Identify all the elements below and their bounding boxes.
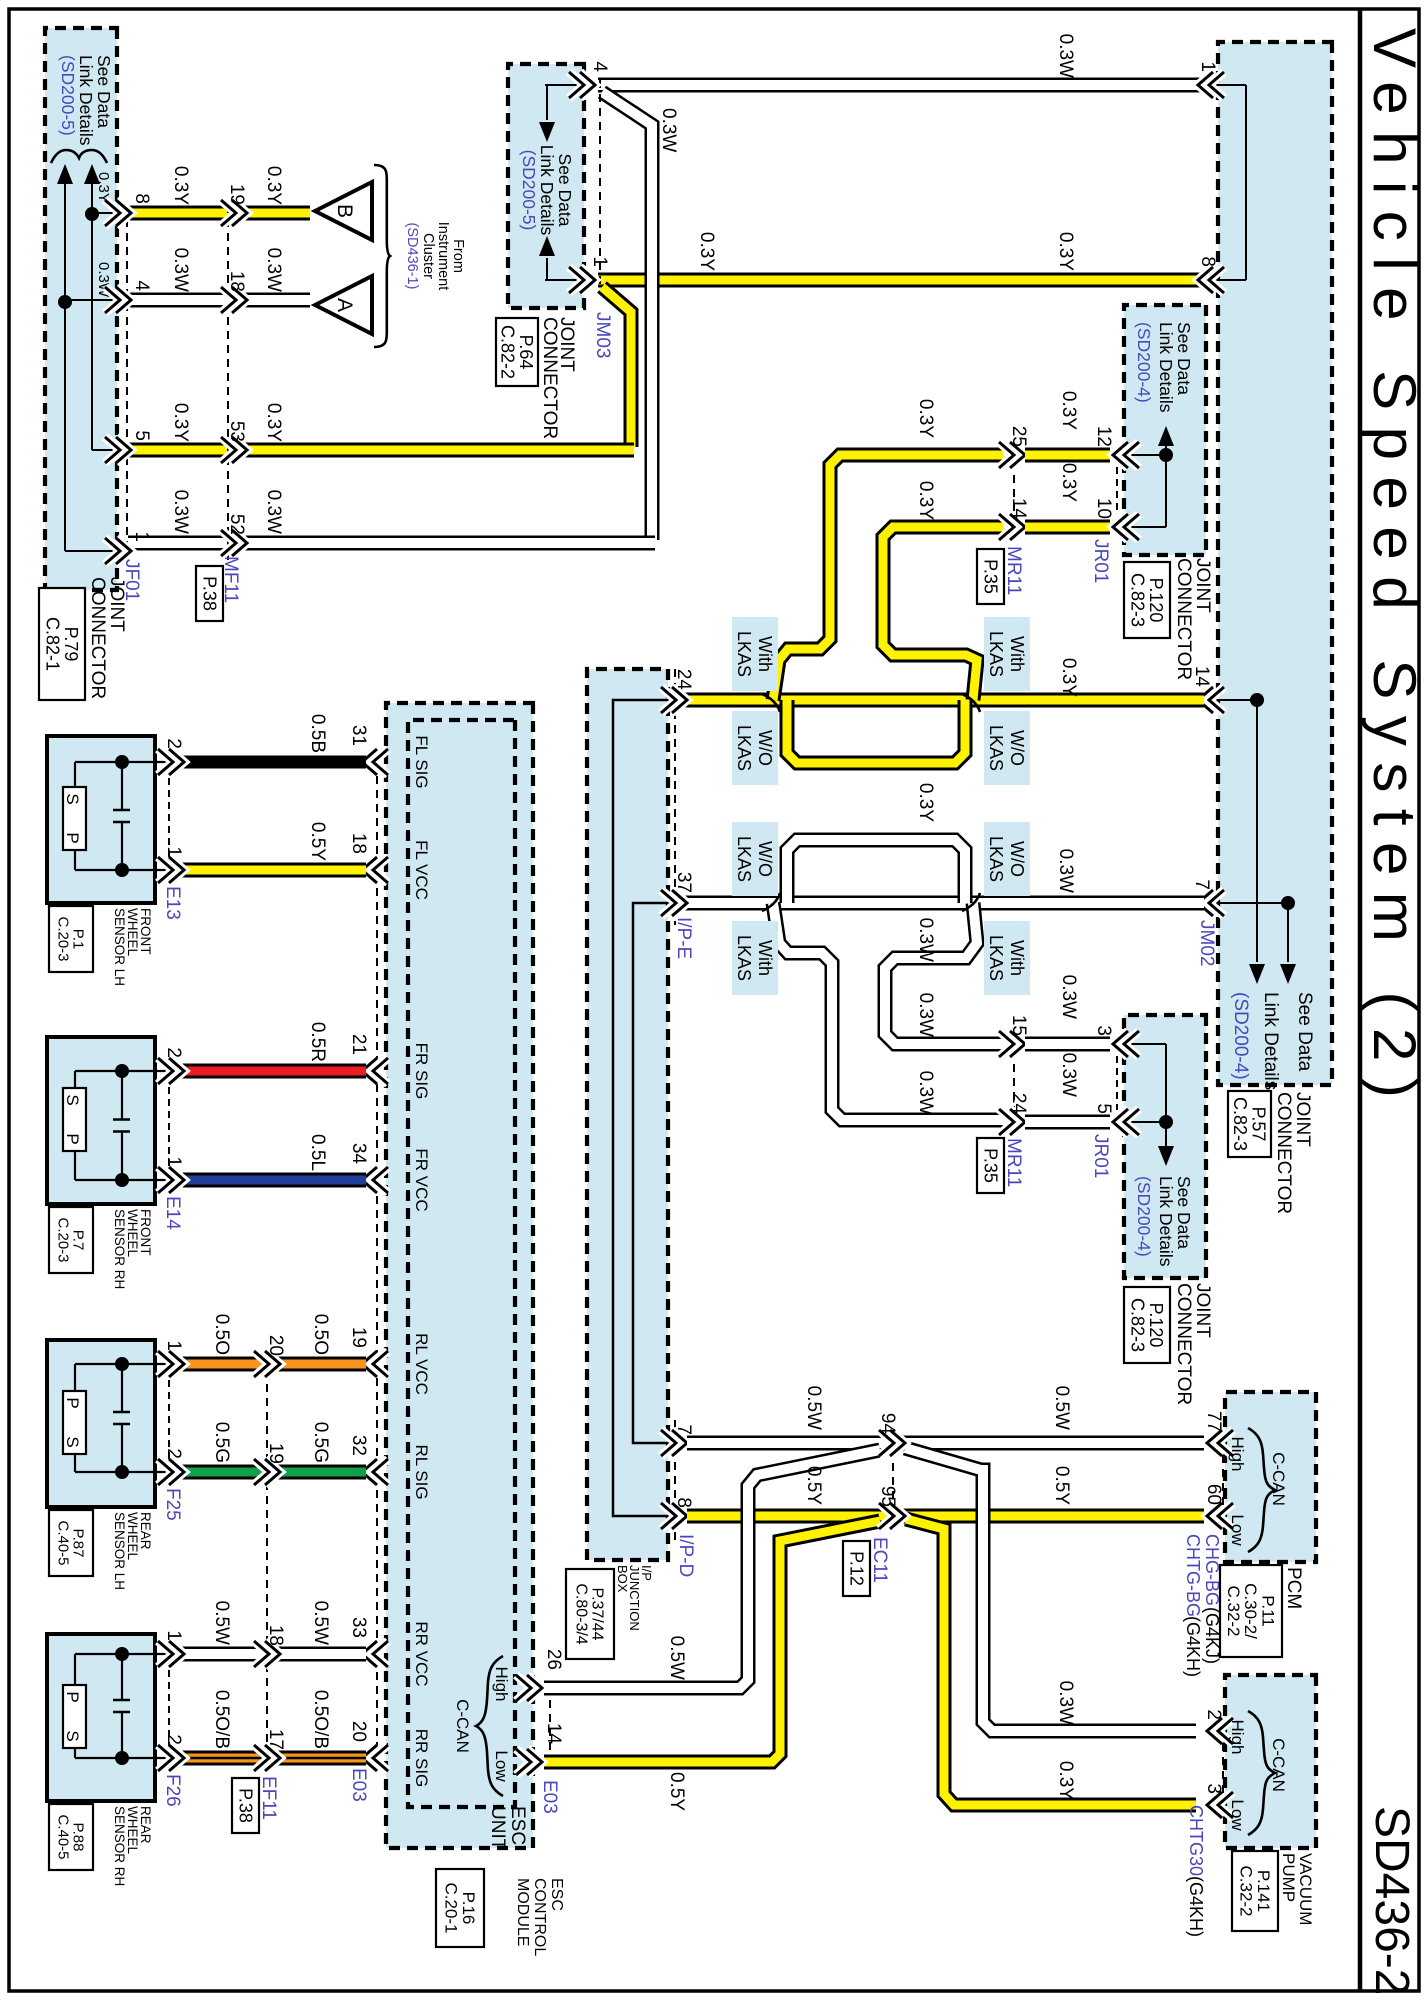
svg-text:RR SIG: RR SIG	[412, 1729, 431, 1788]
svg-text:CONNECTOR: CONNECTOR	[539, 317, 560, 439]
svg-text:(SD200-4): (SD200-4)	[1134, 1176, 1154, 1257]
svg-text:PCM: PCM	[1283, 1567, 1304, 1609]
svg-text:C.82-1: C.82-1	[43, 617, 63, 671]
svg-text:C.82-3: C.82-3	[1128, 1298, 1148, 1352]
svg-text:SENSOR RH: SENSOR RH	[112, 1806, 127, 1886]
svg-text:94: 94	[877, 1413, 898, 1435]
svg-text:0.3Y: 0.3Y	[696, 232, 717, 271]
svg-text:19: 19	[226, 184, 247, 205]
svg-text:FR VCC: FR VCC	[412, 1148, 431, 1211]
svg-text:ESC: ESC	[548, 1878, 565, 1911]
svg-text:C-CAN: C-CAN	[453, 1699, 472, 1753]
svg-text:P.16: P.16	[459, 1892, 478, 1925]
svg-text:24: 24	[673, 669, 694, 691]
svg-text:0.5Y: 0.5Y	[803, 1466, 824, 1505]
svg-text:24: 24	[1008, 1093, 1029, 1115]
svg-text:Low: Low	[1228, 1514, 1247, 1546]
svg-text:Vehicle Speed System (2): Vehicle Speed System (2)	[1361, 28, 1428, 1114]
svg-text:3: 3	[1093, 1025, 1114, 1036]
svg-text:18: 18	[226, 271, 247, 292]
svg-text:I/P-E: I/P-E	[673, 917, 694, 959]
svg-text:0.3W: 0.3W	[915, 993, 936, 1037]
svg-text:C.40-5: C.40-5	[54, 1520, 71, 1565]
svg-text:4: 4	[589, 61, 610, 72]
svg-text:PUMP: PUMP	[1279, 1853, 1298, 1902]
svg-text:12: 12	[1093, 426, 1114, 447]
svg-text:C.32-2: C.32-2	[1237, 1865, 1256, 1916]
svg-text:CONNECTOR: CONNECTOR	[1173, 558, 1194, 680]
svg-text:20: 20	[348, 1721, 369, 1742]
svg-text:FL VCC: FL VCC	[412, 840, 431, 900]
svg-text:0.3W: 0.3W	[1058, 975, 1079, 1019]
svg-text:0.3Y: 0.3Y	[915, 783, 936, 822]
svg-text:E13: E13	[162, 886, 183, 920]
svg-text:FL SIG: FL SIG	[412, 735, 431, 788]
svg-text:C.20-1: C.20-1	[442, 1882, 461, 1933]
svg-text:JOINT: JOINT	[1192, 558, 1213, 613]
svg-text:0.5O/B: 0.5O/B	[211, 1690, 232, 1749]
svg-text:P.120: P.120	[1146, 1303, 1166, 1348]
svg-text:26: 26	[543, 1649, 564, 1670]
svg-text:0.3Y: 0.3Y	[1058, 463, 1079, 502]
svg-text:2: 2	[163, 1734, 184, 1745]
svg-text:C-CAN: C-CAN	[1269, 1738, 1288, 1792]
svg-text:JM03: JM03	[592, 312, 613, 358]
svg-text:Link Details: Link Details	[537, 145, 557, 236]
svg-text:C.20-3: C.20-3	[54, 916, 71, 961]
svg-text:With: With	[1007, 636, 1027, 672]
svg-text:5: 5	[1093, 1103, 1114, 1114]
svg-text:0.5W: 0.5W	[211, 1601, 232, 1645]
svg-text:0.5W: 0.5W	[666, 1636, 687, 1680]
svg-text:LKAS: LKAS	[986, 836, 1006, 882]
svg-text:P.38: P.38	[199, 576, 219, 611]
svg-text:E03: E03	[348, 1768, 369, 1802]
svg-text:(G4KH): (G4KH)	[1186, 1876, 1206, 1937]
svg-text:1: 1	[163, 1630, 184, 1641]
svg-text:1: 1	[589, 256, 610, 267]
svg-text:0.5G: 0.5G	[310, 1422, 331, 1463]
svg-text:EF11: EF11	[258, 1776, 279, 1820]
svg-text:0.3Y: 0.3Y	[1058, 658, 1079, 697]
svg-text:JM02: JM02	[1196, 920, 1217, 966]
svg-text:P: P	[63, 1691, 82, 1702]
svg-text:C.30-2/: C.30-2/	[1241, 1583, 1260, 1639]
svg-text:S: S	[63, 1094, 82, 1105]
svg-text:1: 1	[131, 531, 152, 542]
svg-text:Link Details: Link Details	[1260, 992, 1281, 1090]
svg-text:High: High	[1228, 1720, 1247, 1755]
svg-text:S: S	[63, 1730, 82, 1741]
svg-text:MODULE: MODULE	[514, 1878, 531, 1946]
svg-text:1: 1	[163, 1156, 184, 1167]
svg-text:UNIT: UNIT	[487, 1806, 508, 1851]
svg-text:0.3Y: 0.3Y	[263, 166, 284, 205]
svg-text:(SD200-5): (SD200-5)	[58, 55, 78, 136]
svg-text:S: S	[63, 793, 82, 804]
svg-text:2: 2	[1203, 1709, 1224, 1720]
svg-text:0.3W: 0.3W	[263, 248, 284, 292]
svg-text:19: 19	[348, 1327, 369, 1348]
svg-text:LKAS: LKAS	[734, 725, 754, 771]
svg-text:C.82-2: C.82-2	[498, 325, 518, 379]
svg-text:LKAS: LKAS	[734, 836, 754, 882]
svg-text:RL SIG: RL SIG	[412, 1444, 431, 1499]
svg-text:7: 7	[1191, 879, 1212, 890]
svg-text:7: 7	[673, 1424, 694, 1435]
svg-text:(G4KH): (G4KH)	[1183, 1616, 1203, 1677]
svg-text:0.5W: 0.5W	[803, 1386, 824, 1430]
svg-text:BOX: BOX	[615, 1565, 630, 1593]
svg-text:W/O: W/O	[755, 730, 775, 766]
svg-text:60: 60	[1203, 1484, 1224, 1505]
svg-text:0.3W: 0.3W	[915, 1071, 936, 1115]
svg-text:1: 1	[163, 1340, 184, 1351]
svg-text:With: With	[755, 636, 775, 672]
svg-text:53: 53	[226, 421, 247, 442]
svg-text:P.11: P.11	[1259, 1595, 1278, 1627]
svg-text:LKAS: LKAS	[986, 935, 1006, 981]
svg-text:Link Details: Link Details	[76, 55, 96, 146]
svg-text:LKAS: LKAS	[734, 631, 754, 677]
svg-text:0.3W: 0.3W	[1055, 34, 1076, 78]
svg-text:0.3W: 0.3W	[915, 918, 936, 962]
svg-text:0.3W: 0.3W	[658, 108, 679, 152]
svg-text:0.3W: 0.3W	[263, 490, 284, 534]
svg-text:0.3W: 0.3W	[1055, 1681, 1076, 1725]
svg-text:32: 32	[348, 1435, 369, 1456]
svg-text:C.82-3: C.82-3	[1128, 573, 1148, 627]
svg-text:SENSOR LH: SENSOR LH	[112, 1512, 127, 1590]
svg-text:EC11: EC11	[869, 1537, 890, 1583]
svg-text:E03: E03	[539, 1780, 560, 1814]
svg-text:C.32-2: C.32-2	[1224, 1585, 1243, 1636]
svg-text:Cluster: Cluster	[420, 233, 436, 279]
svg-text:P.141: P.141	[1254, 1870, 1273, 1912]
svg-text:E14: E14	[162, 1196, 183, 1230]
svg-text:0.3Y: 0.3Y	[1058, 391, 1079, 430]
svg-text:(SD436-1): (SD436-1)	[404, 223, 420, 290]
svg-text:4: 4	[131, 280, 152, 291]
svg-text:0.5O: 0.5O	[211, 1314, 232, 1355]
svg-text:See Data: See Data	[1174, 1176, 1194, 1249]
svg-text:Link Details: Link Details	[1156, 322, 1176, 413]
svg-text:8: 8	[1197, 256, 1218, 267]
svg-text:See Data: See Data	[1174, 322, 1194, 395]
svg-text:0.3W: 0.3W	[170, 248, 191, 292]
svg-text:8: 8	[673, 1497, 694, 1508]
svg-text:W/O: W/O	[1007, 730, 1027, 766]
svg-text:W/O: W/O	[1007, 841, 1027, 877]
svg-text:C.20-3: C.20-3	[54, 1217, 71, 1262]
svg-text:0.5Y: 0.5Y	[1051, 1466, 1072, 1505]
svg-text:0.3W: 0.3W	[170, 490, 191, 534]
svg-text:0.5W: 0.5W	[1051, 1386, 1072, 1430]
svg-text:SD436-2: SD436-2	[1365, 1806, 1418, 1995]
svg-text:C-CAN: C-CAN	[1269, 1452, 1288, 1506]
svg-text:See Data: See Data	[1294, 992, 1315, 1072]
svg-text:33: 33	[348, 1617, 369, 1638]
svg-text:0.5Y: 0.5Y	[307, 822, 328, 861]
svg-text:0.5W: 0.5W	[310, 1601, 331, 1645]
svg-text:JOINT: JOINT	[106, 577, 127, 632]
svg-text:0.5Y: 0.5Y	[666, 1772, 687, 1811]
svg-text:CHTG30: CHTG30	[1186, 1805, 1206, 1876]
svg-text:MR11: MR11	[1003, 546, 1024, 595]
svg-text:CONNECTOR: CONNECTOR	[1273, 1092, 1294, 1214]
svg-text:0.5O/B: 0.5O/B	[310, 1690, 331, 1749]
svg-text:3: 3	[1203, 1783, 1224, 1794]
svg-text:RR VCC: RR VCC	[412, 1621, 431, 1686]
svg-text:F26: F26	[162, 1774, 183, 1807]
svg-text:2: 2	[163, 738, 184, 749]
svg-text:See Data: See Data	[555, 154, 575, 227]
svg-text:LKAS: LKAS	[986, 725, 1006, 771]
svg-text:15: 15	[1008, 1015, 1029, 1036]
svg-text:21: 21	[348, 1034, 369, 1055]
svg-text:C.82-3: C.82-3	[1230, 1097, 1250, 1151]
svg-text:CONNECTOR: CONNECTOR	[87, 577, 108, 699]
svg-text:0.5B: 0.5B	[307, 714, 328, 753]
svg-text:0.3W: 0.3W	[1058, 1053, 1079, 1097]
svg-text:20: 20	[265, 1335, 286, 1356]
svg-text:0.5G: 0.5G	[211, 1422, 232, 1463]
svg-text:5: 5	[131, 430, 152, 441]
svg-text:14: 14	[1008, 498, 1029, 520]
svg-text:MR11: MR11	[1003, 1138, 1024, 1187]
svg-text:B: B	[333, 204, 356, 218]
svg-text:0.5O: 0.5O	[310, 1314, 331, 1355]
svg-text:P.57: P.57	[1249, 1107, 1269, 1142]
svg-text:P: P	[63, 1397, 82, 1408]
svg-text:S: S	[63, 1436, 82, 1447]
svg-text:High: High	[492, 1667, 511, 1702]
svg-text:RL VCC: RL VCC	[412, 1333, 431, 1395]
svg-text:F25: F25	[162, 1488, 183, 1521]
svg-text:(G4KJ): (G4KJ)	[1202, 1607, 1222, 1664]
svg-text:JR01: JR01	[1090, 1134, 1111, 1178]
svg-text:(SD200-4): (SD200-4)	[1230, 992, 1251, 1080]
svg-text:0.3Y: 0.3Y	[1055, 1761, 1076, 1800]
svg-text:P.12: P.12	[846, 1551, 866, 1586]
svg-text:LKAS: LKAS	[986, 631, 1006, 677]
svg-text:A: A	[333, 298, 356, 312]
svg-text:SENSOR LH: SENSOR LH	[112, 908, 127, 986]
svg-text:P.35: P.35	[980, 559, 1000, 594]
svg-text:0.3Y: 0.3Y	[170, 403, 191, 442]
svg-text:77: 77	[1203, 1411, 1224, 1432]
svg-text:8: 8	[131, 193, 152, 204]
svg-text:P: P	[63, 1133, 82, 1144]
svg-text:2: 2	[163, 1448, 184, 1459]
svg-text:P.35: P.35	[980, 1148, 1000, 1183]
svg-text:P.120: P.120	[1146, 578, 1166, 623]
svg-text:CONNECTOR: CONNECTOR	[1173, 1283, 1194, 1405]
svg-text:P: P	[63, 832, 82, 843]
svg-text:0.3Y: 0.3Y	[915, 399, 936, 438]
svg-text:SENSOR RH: SENSOR RH	[112, 1209, 127, 1289]
svg-text:18: 18	[265, 1625, 286, 1646]
svg-text:With: With	[755, 940, 775, 976]
svg-text:C.80-3/4: C.80-3/4	[572, 1583, 589, 1644]
svg-text:0.3Y: 0.3Y	[915, 481, 936, 520]
svg-text:10: 10	[1093, 498, 1114, 519]
svg-text:14: 14	[543, 1723, 564, 1745]
svg-text:25: 25	[1008, 426, 1029, 447]
svg-text:With: With	[1007, 940, 1027, 976]
svg-text:31: 31	[348, 725, 369, 746]
svg-text:JOINT: JOINT	[1192, 1283, 1213, 1338]
svg-text:(SD200-4): (SD200-4)	[1134, 322, 1154, 403]
svg-text:37: 37	[673, 872, 694, 893]
svg-text:0.3Y: 0.3Y	[1055, 232, 1076, 271]
svg-text:1: 1	[1197, 61, 1218, 72]
svg-text:34: 34	[348, 1143, 369, 1165]
svg-text:2: 2	[163, 1047, 184, 1058]
svg-text:JR01: JR01	[1090, 539, 1111, 583]
svg-text:P.37/44: P.37/44	[589, 1587, 606, 1640]
svg-text:0.3W: 0.3W	[1055, 849, 1076, 893]
svg-text:See Data: See Data	[94, 55, 114, 128]
svg-text:C.40-5: C.40-5	[54, 1814, 71, 1859]
svg-text:Instrument: Instrument	[435, 222, 451, 291]
svg-text:0.3Y: 0.3Y	[170, 166, 191, 205]
svg-text:Low: Low	[492, 1750, 511, 1782]
svg-text:ESC: ESC	[507, 1806, 528, 1845]
svg-text:0.5R: 0.5R	[307, 1022, 328, 1062]
svg-text:CONTROL: CONTROL	[531, 1878, 548, 1956]
svg-text:Link Details: Link Details	[1156, 1176, 1176, 1267]
svg-text:CHG-BG: CHG-BG	[1202, 1534, 1222, 1606]
svg-text:FR SIG: FR SIG	[412, 1043, 431, 1100]
svg-text:High: High	[1228, 1437, 1247, 1472]
svg-text:LKAS: LKAS	[734, 935, 754, 981]
svg-text:17: 17	[265, 1729, 286, 1750]
svg-text:P.38: P.38	[235, 1788, 255, 1823]
svg-text:1: 1	[163, 846, 184, 857]
svg-text:Low: Low	[1228, 1799, 1247, 1831]
svg-text:18: 18	[348, 833, 369, 854]
svg-text:52: 52	[226, 514, 247, 535]
svg-text:CHTG-BG: CHTG-BG	[1183, 1534, 1203, 1617]
svg-text:P.79: P.79	[61, 627, 81, 662]
svg-text:From: From	[450, 239, 466, 273]
svg-text:W/O: W/O	[755, 841, 775, 877]
svg-text:JOINT: JOINT	[1292, 1092, 1313, 1147]
svg-text:P.64: P.64	[516, 335, 536, 370]
svg-text:95: 95	[877, 1486, 898, 1507]
svg-text:(SD200-5): (SD200-5)	[519, 150, 539, 231]
svg-text:19: 19	[265, 1443, 286, 1464]
svg-text:0.5L: 0.5L	[307, 1134, 328, 1171]
svg-text:0.3Y: 0.3Y	[263, 403, 284, 442]
svg-text:I/P-D: I/P-D	[675, 1534, 696, 1577]
